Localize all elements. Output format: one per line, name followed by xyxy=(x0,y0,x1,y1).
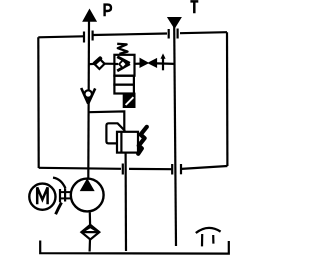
motor M1 circle xyxy=(29,184,55,210)
valve V1 poppet chevron and seat ball xyxy=(114,57,129,71)
check valve CV1 on P line xyxy=(81,88,95,104)
gauge stub tick with arrow xyxy=(161,53,166,70)
wire filter to tank xyxy=(88,240,91,252)
enclosure tick at drain crossing xyxy=(122,164,124,175)
enclosure bottom edge xyxy=(39,166,228,169)
unloading valve V1 body xyxy=(114,55,134,94)
enclosure ticks at P crossing xyxy=(84,31,93,43)
wire throttle to T line xyxy=(157,62,175,65)
port arrow T xyxy=(168,18,181,29)
port arrow P xyxy=(83,10,96,22)
wire pump suction xyxy=(89,212,91,225)
enclosure ticks at T top crossing xyxy=(169,29,178,39)
pump P1 circle xyxy=(71,179,104,212)
wire valve V1 to throttle xyxy=(135,62,141,64)
spring of valve V1 xyxy=(117,44,127,54)
wire relief drain to tank xyxy=(124,153,127,251)
shaft flick marks xyxy=(53,178,65,215)
enclosure right edge xyxy=(226,32,229,166)
relief valve RV1 pilot box (chamfered) xyxy=(106,123,124,143)
wire P line (port to pump) xyxy=(87,21,90,179)
enclosure left edge xyxy=(37,37,40,168)
node P label xyxy=(105,5,111,17)
node T label xyxy=(190,1,198,13)
solenoid Y1 xyxy=(124,94,135,108)
coupling between motor and pump xyxy=(60,188,71,202)
orifice check D1 (small diamond) xyxy=(94,58,104,69)
relief valve RV1 spring xyxy=(138,127,147,154)
wire unload branch: P line to orifice xyxy=(89,63,95,65)
motor M1 label xyxy=(37,187,47,204)
tank xyxy=(40,241,229,254)
wire orifice to valve V1 xyxy=(105,63,115,65)
wire T line (port to tank) xyxy=(174,26,176,246)
relief valve RV1 main box xyxy=(117,132,138,153)
breather on tank xyxy=(196,228,221,247)
pump P1 flow triangle xyxy=(81,179,94,190)
enclosure ticks at T bottom crossing xyxy=(172,164,181,175)
throttle (shut-off) xyxy=(140,59,157,68)
filter F1 xyxy=(81,225,99,240)
wire pilot branch to relief valve RV1 xyxy=(89,111,125,130)
enclosure top edge xyxy=(38,32,227,37)
